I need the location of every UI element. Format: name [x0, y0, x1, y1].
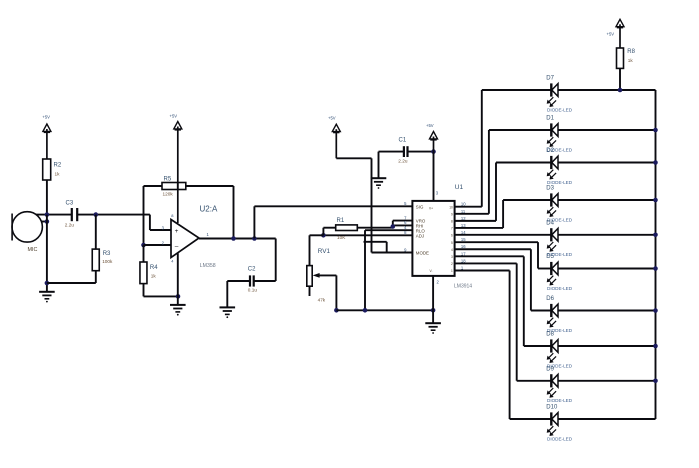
svg-text:120k: 120k: [163, 192, 174, 197]
svg-text:10: 10: [449, 205, 453, 209]
svg-text:2: 2: [451, 262, 453, 266]
svg-text:D5: D5: [546, 254, 554, 260]
svg-text:MODE: MODE: [416, 251, 429, 256]
svg-text:2.2u: 2.2u: [65, 223, 75, 228]
svg-text:LM3914: LM3914: [454, 284, 472, 290]
svg-text:2.2u: 2.2u: [398, 159, 408, 164]
svg-text:SIG: SIG: [416, 204, 424, 209]
svg-text:D1: D1: [546, 116, 554, 122]
svg-text:DIODE-LED: DIODE-LED: [547, 107, 573, 112]
svg-text:D2: D2: [546, 148, 554, 154]
svg-text:5: 5: [451, 241, 453, 245]
svg-text:C1: C1: [399, 138, 407, 144]
svg-text:10K: 10K: [337, 235, 346, 240]
svg-text:1k: 1k: [151, 274, 157, 279]
svg-text:R4: R4: [150, 265, 158, 271]
svg-text:MIC: MIC: [28, 247, 38, 253]
svg-text:D9: D9: [546, 366, 554, 372]
svg-text:R8: R8: [627, 49, 635, 55]
svg-text:–: –: [175, 243, 179, 250]
svg-text:R3: R3: [103, 251, 111, 257]
svg-text:0.1u: 0.1u: [248, 288, 258, 293]
svg-text:C2: C2: [248, 267, 256, 273]
svg-text:U2:A: U2:A: [200, 204, 218, 213]
svg-text:+5V: +5V: [607, 32, 615, 37]
svg-text:+5V: +5V: [42, 115, 50, 120]
svg-text:V-: V-: [429, 269, 432, 273]
svg-text:+5V: +5V: [328, 116, 336, 121]
svg-text:R5: R5: [164, 177, 172, 183]
svg-text:D3: D3: [546, 186, 554, 192]
svg-text:47k: 47k: [318, 298, 326, 303]
svg-text:1k: 1k: [628, 58, 634, 63]
svg-text:3: 3: [451, 255, 453, 259]
svg-text:R2: R2: [54, 163, 62, 169]
svg-text:100k: 100k: [102, 259, 113, 264]
svg-text:C3: C3: [66, 201, 74, 207]
svg-text:DIODE-LED: DIODE-LED: [547, 398, 573, 403]
svg-text:6: 6: [451, 234, 453, 238]
svg-text:4: 4: [451, 248, 453, 252]
svg-text:D10: D10: [546, 405, 558, 411]
svg-text:V+: V+: [429, 207, 433, 211]
svg-text:7: 7: [451, 227, 453, 231]
svg-text:+5V: +5V: [426, 123, 434, 128]
svg-text:DIODE-LED: DIODE-LED: [547, 180, 573, 185]
svg-text:DIODE-LED: DIODE-LED: [547, 436, 573, 441]
svg-text:R1: R1: [337, 218, 345, 224]
svg-text:1: 1: [451, 269, 453, 273]
svg-text:D7: D7: [546, 76, 554, 82]
svg-text:+5V: +5V: [170, 114, 178, 119]
svg-text:DIODE-LED: DIODE-LED: [547, 286, 573, 291]
svg-text:ADJ: ADJ: [416, 233, 424, 238]
svg-text:D6: D6: [546, 296, 554, 302]
svg-text:U1: U1: [455, 184, 464, 191]
svg-text:1k: 1k: [55, 172, 61, 177]
svg-text:D8: D8: [546, 332, 554, 338]
svg-text:RV1: RV1: [318, 248, 331, 255]
svg-text:8: 8: [451, 219, 453, 223]
svg-text:LM358: LM358: [200, 263, 216, 269]
svg-text:D4: D4: [546, 220, 554, 226]
svg-text:+: +: [175, 228, 179, 235]
svg-text:9: 9: [451, 212, 453, 216]
